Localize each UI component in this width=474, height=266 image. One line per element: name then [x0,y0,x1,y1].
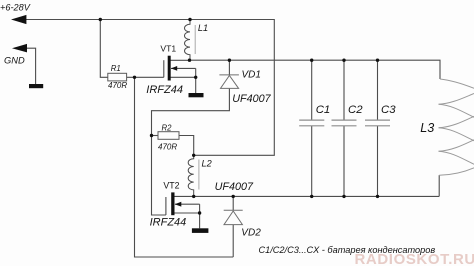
svg-text:470R: 470R [158,142,177,151]
svg-text:L3: L3 [420,121,434,135]
svg-text:470R: 470R [108,81,127,90]
svg-text:UF4007: UF4007 [215,181,254,193]
svg-text:R2: R2 [162,124,173,133]
svg-text:UF4007: UF4007 [232,93,271,105]
svg-text:VT2: VT2 [163,181,179,191]
svg-text:C3: C3 [381,104,396,116]
svg-text:L1: L1 [198,23,208,33]
svg-text:VD2: VD2 [241,228,261,239]
svg-text:R1: R1 [111,64,121,73]
svg-text:C1: C1 [316,104,331,116]
svg-text:VT1: VT1 [160,44,176,54]
svg-text:VD1: VD1 [242,70,261,81]
svg-text:IRFZ44: IRFZ44 [146,84,183,96]
svg-text:RADIOSKOT.RU: RADIOSKOT.RU [355,251,474,266]
svg-text:IRFZ44: IRFZ44 [150,217,187,229]
svg-text:+6-28V: +6-28V [0,3,31,13]
svg-text:C2: C2 [348,104,363,116]
svg-text:GND: GND [4,56,25,66]
svg-text:L2: L2 [202,159,212,169]
